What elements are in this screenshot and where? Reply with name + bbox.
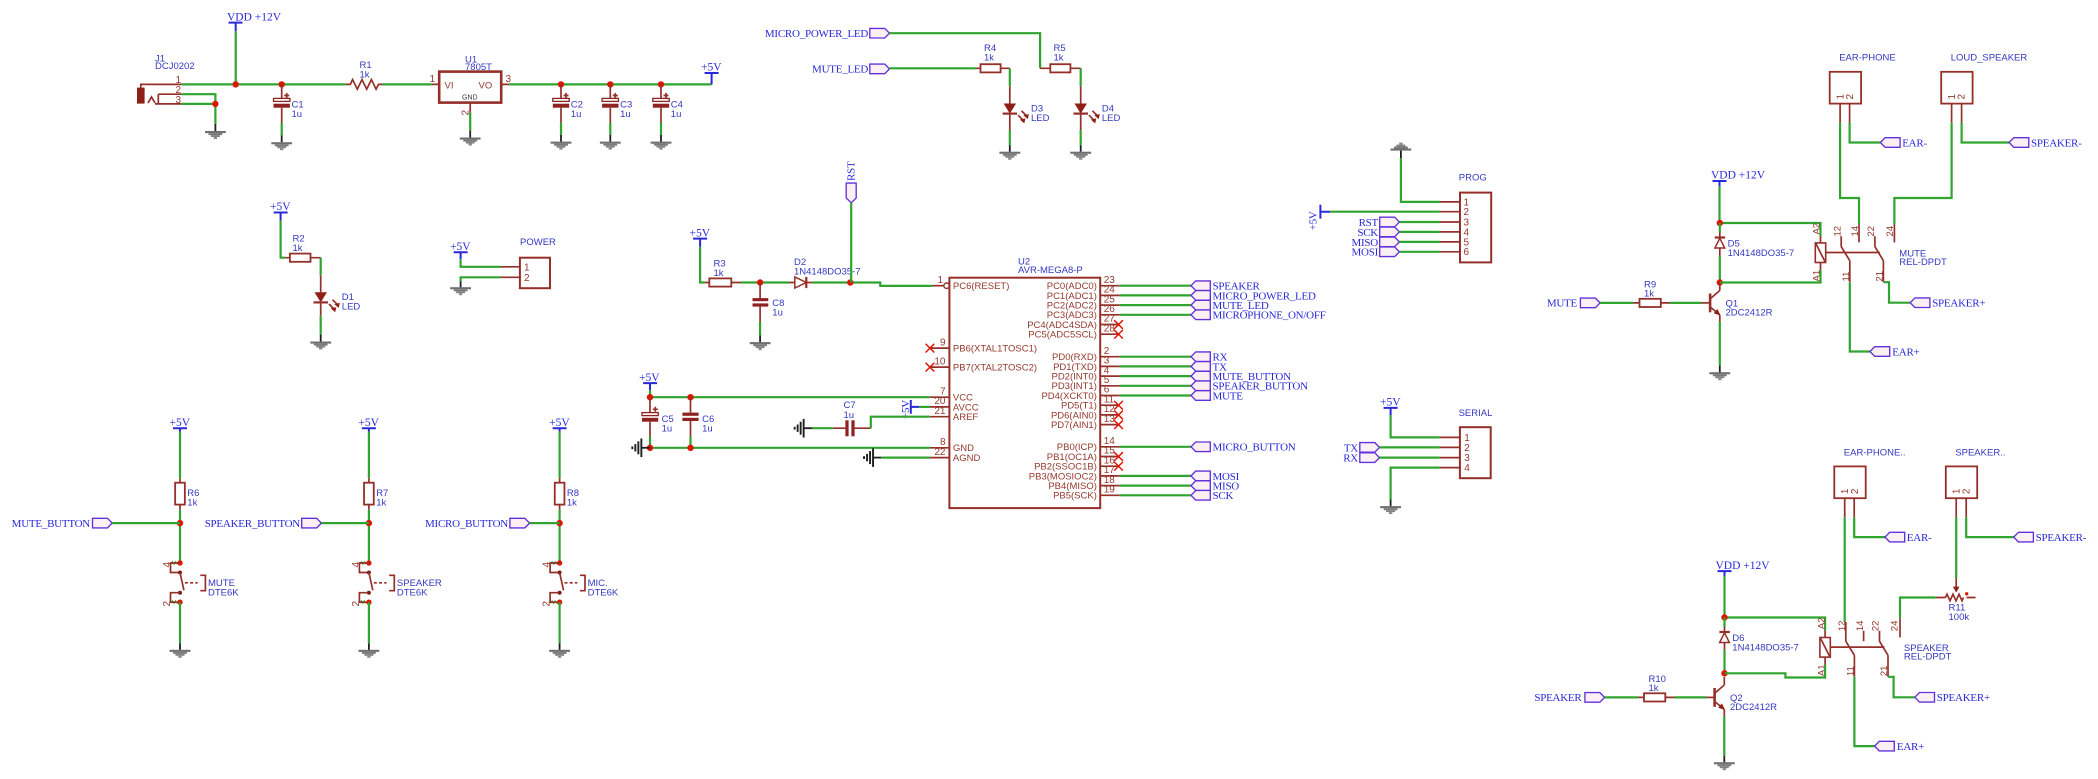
svg-text:MOSI: MOSI: [1351, 247, 1378, 259]
svg-text:4: 4: [542, 562, 553, 568]
net flag MOSI (PROG): [1351, 247, 1399, 259]
svg-text:+5V: +5V: [450, 241, 471, 253]
svg-text:AGND: AGND: [953, 453, 981, 464]
wire LOUD_SPEAKER pin2 to SPEAKER-: [1962, 123, 2010, 143]
wire U1 out rail: [509, 83, 711, 85]
junction RST: [847, 279, 853, 285]
svg-text:EAR-PHONE: EAR-PHONE: [1839, 53, 1895, 64]
pin 5 PD3(INT1): [1051, 375, 1119, 392]
svg-text:SPEAKER+: SPEAKER+: [1932, 298, 1985, 310]
supply +5V (R8): [549, 417, 570, 432]
wire coil A1 to junction (bottom): [1725, 665, 1825, 678]
svg-text:MICRO_BUTTON: MICRO_BUTTON: [425, 518, 508, 530]
pin 27 PC4(ADC4SDA): [1027, 314, 1123, 331]
junction C5 top: [647, 394, 653, 400]
net flag MICRO_POWER_LED (top): [765, 28, 890, 40]
ground (J1): [205, 124, 226, 139]
svg-text:MUTE_BUTTON: MUTE_BUTTON: [12, 518, 91, 530]
ground (C4): [651, 135, 672, 150]
junction MUTE_BUTTON: [177, 520, 183, 526]
transistor Q1 2DC2412R: [1702, 283, 1773, 322]
diode D2: [789, 257, 861, 288]
wire pin4: [1120, 375, 1191, 377]
svg-text:+5V: +5V: [690, 227, 711, 239]
pin 24 PC1(ADC1): [1047, 285, 1120, 302]
wire gnd to PROG pin1: [1401, 158, 1440, 202]
svg-text:4: 4: [351, 562, 362, 568]
capacitor C8: [753, 283, 785, 322]
ground (C2): [551, 135, 572, 150]
wire D1 to ground: [320, 316, 322, 335]
wire C7 to AREF: [871, 417, 930, 429]
svg-text:MICROPHONE_ON/OFF: MICROPHONE_ON/OFF: [1213, 310, 1326, 322]
ground (C7): [794, 419, 813, 438]
ground (C1): [271, 135, 292, 150]
wire LOUD_SPEAKER pin1 to contact 24: [1894, 123, 1951, 225]
junction C1 rail: [279, 81, 285, 87]
wire C8 to ground: [759, 322, 761, 336]
svg-text:6: 6: [1464, 247, 1470, 258]
wire R10 to Q2 base: [1675, 696, 1707, 698]
pin 14 PB0(ICP): [1057, 436, 1120, 453]
resistor R3: [705, 259, 741, 287]
net flag SPEAKER- (bottom): [2014, 532, 2087, 544]
svg-text:2: 2: [542, 601, 553, 607]
svg-text:1u: 1u: [571, 109, 582, 120]
connector PROG: [1440, 173, 1491, 263]
net flag SCK: [1191, 490, 1233, 502]
wire pin19: [1120, 494, 1191, 496]
ground (Q1): [1709, 366, 1730, 381]
capacitor C3: [602, 84, 632, 122]
svg-text:+5V: +5V: [1308, 211, 1320, 230]
IC U2 AVR-MEGA8-P: [949, 256, 1100, 508]
svg-text:PB5(SCK): PB5(SCK): [1053, 491, 1097, 502]
wire J1 pin2/3 to ground: [182, 94, 216, 124]
pin 4 PD2(INT0): [1051, 365, 1119, 382]
pin 28 PC5(ADC5SCL): [1028, 323, 1123, 340]
LED D4: [1074, 86, 1121, 130]
pin 3 PD1(TXD): [1053, 356, 1120, 373]
junction C4: [658, 81, 664, 87]
connector SERIAL: [1440, 408, 1493, 478]
svg-text:1k: 1k: [360, 70, 370, 81]
svg-text:+5V: +5V: [170, 417, 191, 429]
capacitor C1: [274, 84, 304, 122]
trimmer R11 100k: [1936, 578, 1976, 623]
pin 23 PC0(ADC0): [1047, 275, 1120, 292]
supply +5V (POWER): [450, 241, 471, 259]
pin 16 PB2(SSOC1B): [1034, 455, 1123, 472]
relay contact 11 (bottom): [1845, 655, 1856, 677]
svg-text:LED: LED: [1031, 113, 1050, 124]
wire contact 11 to EAR+: [1850, 282, 1870, 351]
net flag SPEAKER (drive): [1534, 692, 1604, 704]
diode D5: [1715, 223, 1794, 259]
svg-text:VO: VO: [479, 81, 493, 92]
ground (C3): [600, 135, 621, 150]
wire SPEAKER_BUTTON to junction: [321, 522, 369, 524]
net flag SPEAKER_BUTTON: [205, 518, 322, 530]
resistor R7: [364, 478, 388, 509]
net flag EAR- (bottom): [1885, 532, 1932, 544]
wire pin5: [1120, 385, 1191, 387]
ground (Q2): [1714, 756, 1735, 771]
pin 8 GND: [930, 437, 974, 454]
svg-text:DTE6K: DTE6K: [208, 587, 239, 598]
relay contact 24 (bottom): [1890, 618, 1901, 637]
net flag MUTE_BUTTON: [1191, 371, 1291, 383]
relay contact 12 (bottom): [1837, 621, 1855, 656]
svg-text:DCJ0202: DCJ0202: [155, 61, 195, 72]
ground (gnd rail left): [631, 439, 650, 458]
svg-text:1k: 1k: [714, 268, 724, 279]
pin 12 PD6(AIN0): [1051, 404, 1123, 421]
svg-text:SERIAL: SERIAL: [1459, 408, 1493, 419]
wire SPEAKER.. pin2 to SPEAKER-: [1966, 517, 2014, 537]
svg-text:MICRO_BUTTON: MICRO_BUTTON: [1213, 442, 1296, 454]
svg-text:1k: 1k: [1054, 52, 1064, 63]
pin 19 PB5(SCK): [1053, 485, 1120, 502]
net flag MICROPHONE_ON/OFF: [1191, 310, 1326, 322]
wire C1 to ground: [281, 123, 283, 136]
pin 2 PD0(RXD): [1052, 346, 1120, 363]
net flag SCK (PROG): [1357, 227, 1399, 239]
net flag SPEAKER_BUTTON: [1191, 381, 1308, 393]
svg-text:2: 2: [351, 601, 362, 607]
wire pin24: [1120, 294, 1191, 296]
wire pin26: [1120, 314, 1191, 316]
wire J1 pin1 rail: [182, 83, 346, 85]
relay contact 22 (bottom): [1871, 621, 1888, 656]
ground (C8): [750, 335, 771, 350]
svg-text:VI: VI: [445, 81, 454, 92]
wire +5V to R6: [179, 432, 181, 479]
wire pin23: [1120, 285, 1191, 287]
svg-text:2DC2412R: 2DC2412R: [1730, 702, 1777, 713]
svg-text:RST: RST: [846, 161, 858, 181]
resistor R1: [346, 60, 383, 89]
wire R7 to junction: [368, 510, 370, 563]
svg-text:LOUD_SPEAKER: LOUD_SPEAKER: [1951, 53, 2028, 64]
svg-text:28: 28: [1104, 323, 1116, 334]
wire C6 to gnd rail: [689, 437, 691, 448]
wire R4 to D3: [1009, 68, 1011, 86]
supply +5V (R6): [170, 417, 191, 432]
junction VDD rail: [233, 81, 239, 87]
svg-text:3: 3: [176, 95, 182, 106]
wire contact 21 to SPEAKER+ (bottom): [1888, 677, 1915, 698]
junction J1 pin3: [212, 101, 218, 107]
wire R9 to Q1 base: [1670, 302, 1702, 304]
wire R1 to U1: [383, 83, 432, 85]
supply +5V (AVCC rotated): [900, 400, 930, 419]
relay contact 11: [1841, 261, 1852, 283]
pin 6 PD4(XCKT0): [1041, 385, 1119, 402]
wire MUTE_BUTTON to junction: [112, 522, 180, 524]
switch MUTE DTE6K: [162, 560, 239, 606]
svg-text:DTE6K: DTE6K: [588, 587, 619, 598]
pin 1 PC6(RESET): [932, 275, 1009, 292]
svg-text:EAR-: EAR-: [1907, 532, 1932, 544]
svg-text:10: 10: [934, 356, 946, 367]
wire D4 to ground: [1080, 130, 1082, 145]
relay linkage: [1826, 252, 1880, 254]
wire EAR-PHONE pin2 to EAR-: [1850, 123, 1881, 143]
junction D5 top: [1717, 220, 1723, 226]
wire TX to SERIAL pin2: [1380, 446, 1440, 448]
net flag RST (vertical): [846, 161, 858, 203]
connector POWER: [501, 237, 557, 288]
net flag MUTE_LED: [1191, 300, 1269, 312]
supply +5V (R2 branch): [270, 201, 291, 221]
svg-text:PB7(XTAL2TOSC2): PB7(XTAL2TOSC2): [953, 363, 1037, 374]
ground (MIC button): [549, 643, 570, 658]
svg-text:2DC2412R: 2DC2412R: [1726, 308, 1773, 319]
supply +5V (C5 rail): [639, 372, 660, 391]
LED D3: [1003, 86, 1050, 130]
wire pin2: [1120, 356, 1191, 358]
net flag MOSI: [1191, 471, 1240, 483]
svg-text:EAR+: EAR+: [1892, 346, 1919, 358]
net flag MICRO_BUTTON: [1191, 442, 1296, 454]
junction D6 bottom: [1721, 670, 1727, 676]
junction D6 top: [1721, 614, 1727, 620]
svg-text:REL-DPDT: REL-DPDT: [1899, 257, 1947, 268]
svg-text:PROG: PROG: [1459, 173, 1487, 184]
net flag MISO (PROG): [1351, 237, 1399, 249]
connector EAR-PHONE..: [1834, 447, 1905, 517]
svg-text:+5V: +5V: [701, 62, 722, 74]
svg-text:1: 1: [430, 74, 436, 85]
svg-text:EAR-PHONE..: EAR-PHONE..: [1844, 447, 1906, 458]
wire EAR-PHONE.. pin2 to EAR-: [1854, 517, 1885, 537]
svg-text:2: 2: [162, 601, 173, 607]
svg-text:SPEAKER_BUTTON: SPEAKER_BUTTON: [205, 518, 301, 530]
svg-text:1k: 1k: [293, 243, 303, 254]
svg-text:24: 24: [1890, 621, 1901, 632]
connector J1: [137, 53, 195, 106]
svg-text:1u: 1u: [662, 423, 673, 434]
svg-text:POWER: POWER: [520, 237, 556, 248]
wire MUTE_LED to R4: [890, 67, 976, 69]
svg-text:RX: RX: [1343, 453, 1358, 465]
relay contact 14: [1850, 224, 1861, 242]
wire D2 to MCU pin1: [812, 283, 932, 286]
resistor R10: [1638, 674, 1675, 702]
pin 9 PB6(XTAL1TOSC1): [926, 337, 1037, 354]
net flag EAR+: [1870, 346, 1920, 358]
wire Q2 emitter to ground: [1723, 716, 1725, 756]
wire R2 to D1: [320, 258, 322, 276]
relay contact 21: [1874, 261, 1885, 283]
net flag EAR+ (bottom): [1875, 741, 1925, 753]
svg-text:2: 2: [1957, 94, 1968, 100]
connector EAR-PHONE: [1830, 53, 1896, 123]
relay coil SPEAKER REL-DPDT: [1816, 617, 1951, 676]
pin 18 PB4(MISO): [1048, 475, 1119, 492]
capacitor C4: [653, 84, 683, 122]
junction C3: [607, 81, 613, 87]
wire pin17: [1120, 475, 1191, 477]
svg-text:2: 2: [1961, 488, 1972, 494]
wire R5 to D4: [1080, 68, 1082, 86]
pin 15 PB1(OC1A): [1047, 446, 1123, 463]
svg-text:AVR-MEGA8-P: AVR-MEGA8-P: [1018, 265, 1083, 276]
junction C2: [558, 81, 564, 87]
wire SCK to PROG pin4: [1399, 231, 1440, 233]
svg-text:2: 2: [1845, 94, 1856, 100]
relay contact 14 (bottom): [1855, 621, 1866, 642]
supply +5V (SERIAL): [1380, 397, 1401, 416]
wire contact 11 to EAR+ (bottom): [1854, 677, 1874, 746]
ground (SPEAKER button): [359, 643, 380, 658]
wire pin14: [1120, 446, 1191, 448]
svg-text:22: 22: [1866, 226, 1877, 237]
relay contact 22: [1866, 226, 1883, 261]
svg-text:2: 2: [524, 273, 530, 284]
svg-text:SPEAKER: SPEAKER: [1534, 692, 1582, 704]
resistor R8: [555, 478, 579, 509]
resistor R4: [976, 43, 1010, 72]
svg-text:1N4148DO35-7: 1N4148DO35-7: [1728, 248, 1795, 259]
resistor R2: [285, 234, 320, 262]
pin 7 VCC: [930, 386, 973, 403]
wire +5V to R7: [368, 432, 370, 479]
svg-text:EAR+: EAR+: [1897, 741, 1924, 753]
net flag MUTE_BUTTON: [12, 518, 113, 530]
pin 22 AGND: [930, 447, 981, 464]
svg-text:+5V: +5V: [549, 417, 570, 429]
net flag RST (PROG): [1359, 217, 1400, 229]
svg-text:1u: 1u: [772, 308, 783, 319]
svg-text:LED: LED: [1102, 113, 1121, 124]
wire +5V to R8: [558, 432, 560, 479]
svg-text:1: 1: [524, 263, 530, 274]
junction MICRO_BUTTON: [556, 520, 562, 526]
svg-text:SCK: SCK: [1213, 490, 1234, 502]
wire R11 to contact 24: [1900, 598, 1936, 619]
svg-text:9: 9: [940, 337, 946, 348]
diode D6: [1719, 618, 1798, 654]
wire VDD to junction: [1720, 186, 1821, 236]
ground (D1): [310, 335, 331, 350]
wire SPEAKER.. pin1 to R11 wiper: [1955, 517, 1957, 578]
ground (SERIAL): [1380, 500, 1401, 515]
svg-text:MUTE_LED: MUTE_LED: [812, 64, 868, 76]
transistor Q2 2DC2412R: [1706, 677, 1777, 716]
svg-text:+5V: +5V: [270, 201, 291, 213]
wire C5 to gnd rail: [649, 437, 651, 448]
svg-text:1k: 1k: [187, 498, 197, 509]
wire MUTE to R9: [1600, 302, 1633, 304]
wire POWER pin2 to ground: [461, 277, 501, 281]
svg-text:100k: 100k: [1949, 612, 1970, 623]
wire VCC rail: [650, 390, 930, 397]
svg-text:1k: 1k: [567, 498, 577, 509]
wire MOSI to PROG pin6: [1399, 251, 1440, 253]
ground (PROG, pointing up): [1391, 143, 1412, 158]
ground (POWER): [450, 281, 471, 295]
wire VDD to rail: [235, 31, 237, 84]
supply +5V (PROG rotated): [1308, 205, 1331, 231]
wire C7 to ground: [812, 427, 832, 429]
wire +5V to R2: [281, 221, 286, 258]
svg-text:1k: 1k: [376, 498, 386, 509]
svg-text:21: 21: [934, 406, 946, 417]
net flag TX (SERIAL): [1344, 442, 1380, 454]
net flag SPEAKER: [1191, 281, 1261, 293]
supply VDD +12V (top-left): [227, 12, 282, 32]
svg-text:1u: 1u: [702, 423, 713, 434]
relay contact 24: [1885, 224, 1896, 242]
supply VDD +12V (SPEAKER relay): [1716, 560, 1771, 577]
net flag RX: [1191, 352, 1228, 364]
svg-text:EAR-: EAR-: [1902, 137, 1927, 149]
svg-text:22: 22: [934, 447, 946, 458]
supply +5V (rail end): [701, 62, 722, 85]
wire MICRO_BUTTON to junction: [530, 522, 560, 524]
wire switch to ground (MIC): [558, 602, 560, 643]
svg-text:+5V: +5V: [358, 417, 379, 429]
svg-text:+5V: +5V: [639, 372, 660, 384]
svg-text:DTE6K: DTE6K: [397, 587, 428, 598]
wire C3 to ground: [609, 123, 611, 135]
pin 10 PB7(XTAL2TOSC2): [926, 356, 1037, 373]
svg-text:SPEAKER-: SPEAKER-: [2031, 137, 2082, 149]
ground (D3): [999, 145, 1020, 160]
supply +5V (R3 branch): [690, 227, 711, 246]
junction SPEAKER_BUTTON: [366, 520, 372, 526]
wire GND rail: [650, 447, 930, 449]
wire C4 to ground: [660, 123, 662, 135]
pin 26 PC3(ADC3): [1047, 304, 1120, 321]
svg-text:LED: LED: [342, 302, 361, 313]
wire coil A1 to junction: [1720, 270, 1821, 283]
wire switch to ground (MUTE): [179, 602, 181, 643]
wire RST to PROG pin3: [1399, 221, 1440, 223]
pin 20 AVCC: [930, 396, 979, 413]
net flag TX: [1191, 361, 1227, 373]
wire C2 to ground: [560, 123, 562, 135]
svg-text:13: 13: [1104, 414, 1116, 425]
wire RX to SERIAL pin3: [1380, 457, 1440, 459]
wire EAR-PHONE.. pin1 to contact 12: [1844, 517, 1846, 622]
wire +5V to SERIAL pin1: [1391, 415, 1440, 437]
resistor R9: [1633, 279, 1670, 307]
svg-text:1u: 1u: [671, 109, 682, 120]
junction C6 top: [687, 394, 693, 400]
ground (MUTE button): [170, 643, 191, 658]
switch MIC. DTE6K: [542, 560, 619, 606]
wire +5V to POWER pin1: [461, 259, 501, 267]
pin 11 PD5(T1): [1061, 394, 1123, 411]
net flag EAR-: [1880, 137, 1927, 149]
ground (U1): [460, 131, 481, 146]
svg-text:1u: 1u: [620, 109, 631, 120]
capacitor C5: [642, 397, 674, 436]
LED D1: [314, 275, 361, 315]
relay coil MUTE REL-DPDT: [1812, 223, 1947, 282]
svg-text:1k: 1k: [984, 52, 994, 63]
svg-text:MUTE: MUTE: [1547, 298, 1578, 310]
svg-text:PD7(AIN1): PD7(AIN1): [1051, 420, 1097, 431]
net flag MUTE: [1191, 390, 1243, 402]
wire switch to ground (SPEAKER): [368, 602, 370, 643]
wire pin3: [1120, 365, 1191, 367]
svg-text:14: 14: [1855, 621, 1866, 632]
wire Q1 emitter to ground: [1719, 322, 1721, 366]
